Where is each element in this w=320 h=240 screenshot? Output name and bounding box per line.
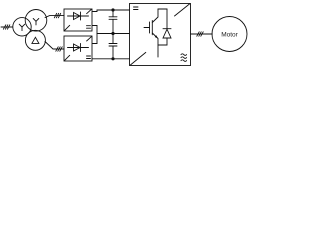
wire DC midpoint bus xyxy=(97,33,130,35)
three-phase ticks motor wire xyxy=(197,32,203,36)
rectifier U2 box xyxy=(64,36,92,61)
inverter U3 AC symbol tildes xyxy=(181,54,187,62)
transformer T1 secondary 1 winding circle xyxy=(25,9,47,31)
rectifier U1 DC symbol = xyxy=(87,26,91,29)
three-phase ticks input xyxy=(3,25,9,29)
wire U1 minus to U2 plus vertical link xyxy=(93,26,98,44)
wire inverter output to motor xyxy=(191,33,213,35)
wire U1 plus output to DC+ bus xyxy=(93,10,98,12)
transistor Q1 IGBT collector lead xyxy=(152,9,158,23)
transformer T1 secondary 2 winding circle xyxy=(25,30,45,50)
rectifier U2 diode D2 xyxy=(68,44,89,52)
inverter U3 box xyxy=(130,4,191,66)
svg-text:Motor: Motor xyxy=(221,31,238,38)
three-phase ticks U2 input xyxy=(56,47,62,51)
wire DC+ bus xyxy=(97,9,130,11)
transformer T1 primary winding circle xyxy=(13,18,31,36)
rectifier U1 box xyxy=(64,9,92,31)
node DC- junction dot xyxy=(111,57,114,60)
transistor Q1 IGBT gate bar xyxy=(149,22,151,33)
capacitor C1 xyxy=(109,10,117,34)
transformer T1 wye symbol primary xyxy=(19,24,25,30)
three-phase ticks U1 input xyxy=(54,13,60,17)
transformer T1 delta symbol secondary 2 xyxy=(32,37,39,43)
inverter U3 DC symbol = xyxy=(134,7,139,10)
inverter U3 diagonal corner slash top-right xyxy=(175,4,190,16)
transformer T1 wye symbol secondary 1 xyxy=(33,19,39,25)
wire secondary 1 to rectifier U1 xyxy=(45,16,64,18)
rectifier U1 diode D1 xyxy=(68,12,89,20)
motor M1 circle xyxy=(212,17,247,52)
transistor Q1 IGBT emitter lead with arrow xyxy=(152,33,158,57)
wire Q1 emitter node to diode D3 xyxy=(158,44,167,46)
wire secondary 2 to rectifier U2 xyxy=(45,42,64,50)
diode D3 freewheeling xyxy=(163,9,171,45)
wire AC input xyxy=(1,26,13,28)
capacitor C2 xyxy=(109,34,117,59)
wire DC- bus xyxy=(93,58,130,60)
rectifier U2 diagonal corner slash top-right xyxy=(87,37,92,41)
rectifier U1 diagonal corner slash top-right xyxy=(87,9,92,14)
inverter U3 diagonal corner slash bottom-left xyxy=(130,52,145,65)
node DC midpoint junction dot xyxy=(111,32,114,35)
rectifier U1 diagonal corner slash bottom-left xyxy=(65,25,70,30)
rectifier U2 DC symbol = xyxy=(87,56,91,59)
wire Q1 collector node to diode D3 xyxy=(158,8,167,10)
transistor Q1 IGBT gate lead xyxy=(144,27,150,29)
transistor Q1 IGBT body bar xyxy=(151,21,153,35)
node DC+ junction dot xyxy=(111,8,114,11)
rectifier U2 diagonal corner slash bottom-left xyxy=(65,55,70,60)
